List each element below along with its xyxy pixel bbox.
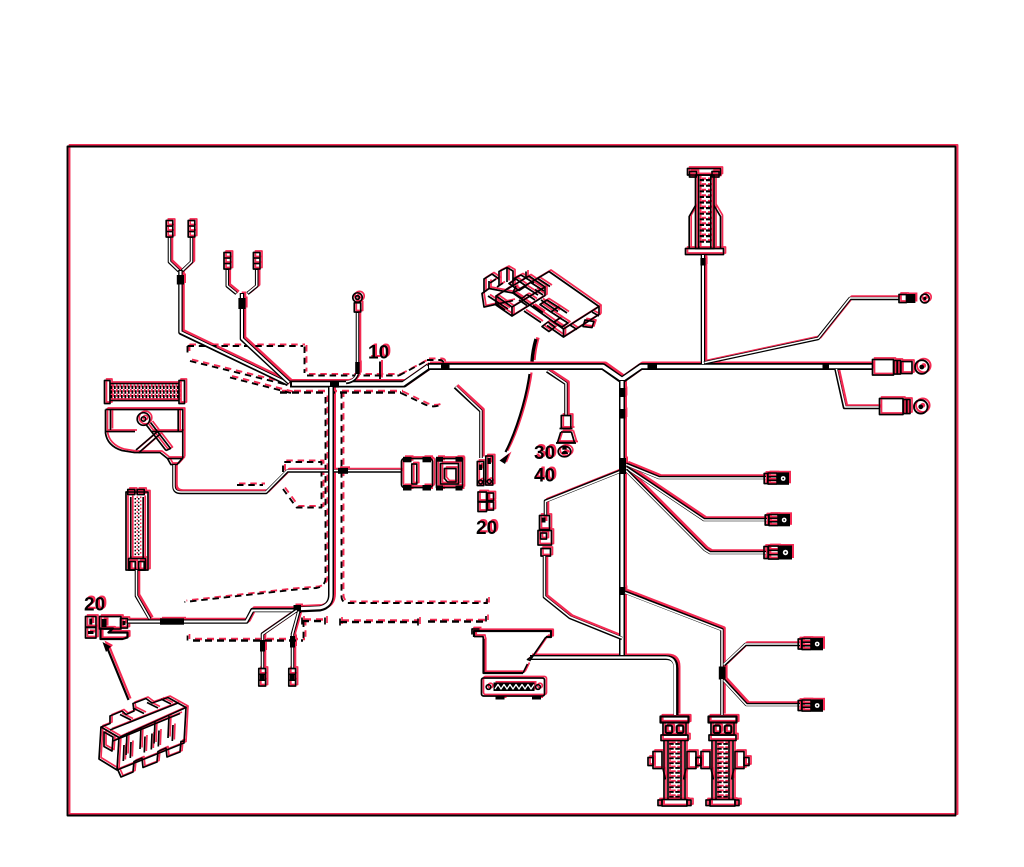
dashed gearbox box west edge <box>303 621 305 642</box>
bus sleeve tick 3 <box>823 363 830 370</box>
inline socket connector <box>436 457 463 491</box>
fan wire 2 <box>626 467 767 520</box>
dashed gearbox lower outline middle <box>340 619 418 626</box>
oil pan <box>474 631 551 673</box>
fork connector A sleeve <box>177 275 184 285</box>
dashed outline above harness <box>307 360 443 376</box>
wire to 2-pin connector <box>455 387 481 458</box>
ground strap wire <box>137 570 151 619</box>
left flat connector <box>100 617 128 640</box>
fork connector B main wire <box>242 293 290 383</box>
left wire sleeve <box>160 618 184 624</box>
lower barrel connector <box>880 399 911 415</box>
fork connector A left wire <box>170 237 180 271</box>
terminal lug 5 <box>798 699 823 712</box>
inline connector chain <box>538 516 552 557</box>
wire to engine terminal upper <box>724 644 800 665</box>
fan wire to inline connector chain <box>546 470 624 515</box>
fuse box bottom left <box>99 698 186 778</box>
wire to antenna terminal <box>704 298 899 363</box>
column sleeve 2 <box>619 409 625 419</box>
svg-text:30: 30 <box>534 443 555 464</box>
dashed outline right of branch column <box>342 392 488 604</box>
label 20 middle <box>476 518 497 539</box>
column sleeve 1 <box>619 388 625 397</box>
column to knot elbow <box>298 386 331 610</box>
plug boot connector <box>556 416 576 444</box>
latch bracket component <box>106 410 183 465</box>
terminal lug 2 <box>765 514 790 527</box>
wire to engine terminal lower <box>724 680 800 705</box>
dashed outline above latch wire <box>237 484 263 486</box>
fork connector A right wire <box>182 237 192 271</box>
2-pin connector <box>477 456 493 486</box>
dashed engine outline diagonal <box>190 361 288 385</box>
dangling wire right tip <box>289 669 296 687</box>
dangling wire right <box>293 611 300 669</box>
latch wire sleeve <box>338 468 348 474</box>
middle barrel connector <box>873 360 913 376</box>
dashed engine outline right edge <box>304 347 306 374</box>
latch bracket wire <box>174 465 401 493</box>
fork connector B sleeve <box>238 298 245 309</box>
label 40 <box>534 466 555 487</box>
right coil feed wire <box>720 679 724 715</box>
junction sleeve right <box>719 667 726 680</box>
svg-text:10: 10 <box>368 343 389 364</box>
dashed gearbox lower outline <box>302 618 325 625</box>
leader arrow from relay bracket <box>500 339 537 464</box>
dashed hook near oil pan <box>472 629 480 635</box>
lower right bus branch wire <box>836 369 880 408</box>
harness bus right section <box>428 367 873 381</box>
bottom horizontal wire <box>530 658 676 716</box>
tall connector wire sleeve <box>700 258 705 266</box>
bus sleeve tick 1 <box>441 363 450 370</box>
tall connector wire <box>701 255 706 365</box>
left small terminal pair <box>86 617 97 639</box>
fork connector A main wire <box>181 270 289 384</box>
ignition coil connector left <box>648 717 701 807</box>
bus sleeve tick at column join <box>330 381 339 388</box>
terminal lug 3 <box>764 546 792 560</box>
grommet 30 40 <box>558 446 571 457</box>
fan wire 3 <box>626 470 766 553</box>
gearbox branch diagonal wire <box>625 592 722 667</box>
fork connector A right tip <box>188 221 195 238</box>
dashed engine outline top edge <box>188 346 304 355</box>
terminal lug 4 <box>798 638 823 651</box>
controller strip <box>482 678 545 700</box>
fan node sleeve <box>619 458 626 474</box>
ground strap component <box>126 490 148 571</box>
svg-text:40: 40 <box>534 466 555 487</box>
border frame <box>68 147 956 816</box>
knot junction sleeve <box>294 605 302 613</box>
dashed outline left of branch column <box>185 397 326 602</box>
wire to plug boot <box>547 371 566 416</box>
central branch column <box>619 380 625 656</box>
ignition coil connector right <box>696 717 749 807</box>
dashed outline below harness <box>230 378 440 407</box>
fork connector B right wire <box>248 269 257 294</box>
inline chain lower wire <box>545 556 623 639</box>
left connector wire <box>128 610 298 622</box>
dangling wire left tip <box>259 669 266 687</box>
ring terminal <box>353 293 362 312</box>
svg-text:20: 20 <box>476 518 497 539</box>
dangling wire left <box>263 610 298 669</box>
middle ring eyelet <box>915 360 929 374</box>
ring terminal wire <box>346 312 358 383</box>
lower ring eyelet <box>914 400 928 414</box>
dangling wire left sleeve <box>260 640 265 652</box>
harness bus left section <box>290 367 429 385</box>
inline plug connector <box>402 457 433 491</box>
bus sleeve tick 2 <box>648 363 658 370</box>
label 30 <box>534 443 555 464</box>
dangling wire right sleeve <box>290 636 295 648</box>
terminal lug 1 <box>764 472 789 485</box>
fork connector B right tip <box>253 253 260 270</box>
relay bracket assembly <box>482 268 599 338</box>
fan wire 1 <box>626 464 766 478</box>
tall multipin connector <box>686 169 724 255</box>
stacked terminal pair <box>478 492 494 512</box>
fork connector B left tip <box>224 253 231 270</box>
label 10 <box>368 343 389 380</box>
dashed gearbox lower outline right <box>428 616 486 622</box>
ribbed bar component <box>105 381 185 404</box>
fork connector B left wire <box>227 269 236 294</box>
antenna plug terminal <box>899 294 929 303</box>
dashed gearbox bottom row <box>188 636 304 641</box>
label 20 left <box>84 595 105 616</box>
fork connector A left tip <box>166 221 173 238</box>
ring terminal wire sleeve <box>355 362 360 374</box>
dashed gearbox pentagon outline <box>283 462 322 508</box>
svg-text:20: 20 <box>84 595 105 616</box>
column sleeve 3 <box>619 587 625 595</box>
arrow to fuse box <box>103 642 129 700</box>
